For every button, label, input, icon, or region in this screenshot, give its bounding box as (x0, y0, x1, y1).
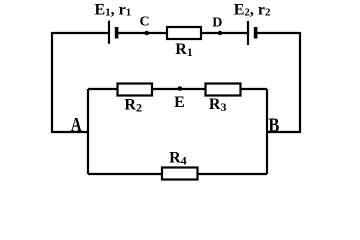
svg-text:A: A (71, 114, 82, 136)
svg-text:B: B (268, 115, 279, 137)
svg-text:E1, r1: E1, r1 (95, 1, 132, 18)
svg-text:E: E (174, 94, 185, 111)
svg-text:D: D (212, 15, 222, 30)
svg-text:C: C (140, 14, 150, 29)
